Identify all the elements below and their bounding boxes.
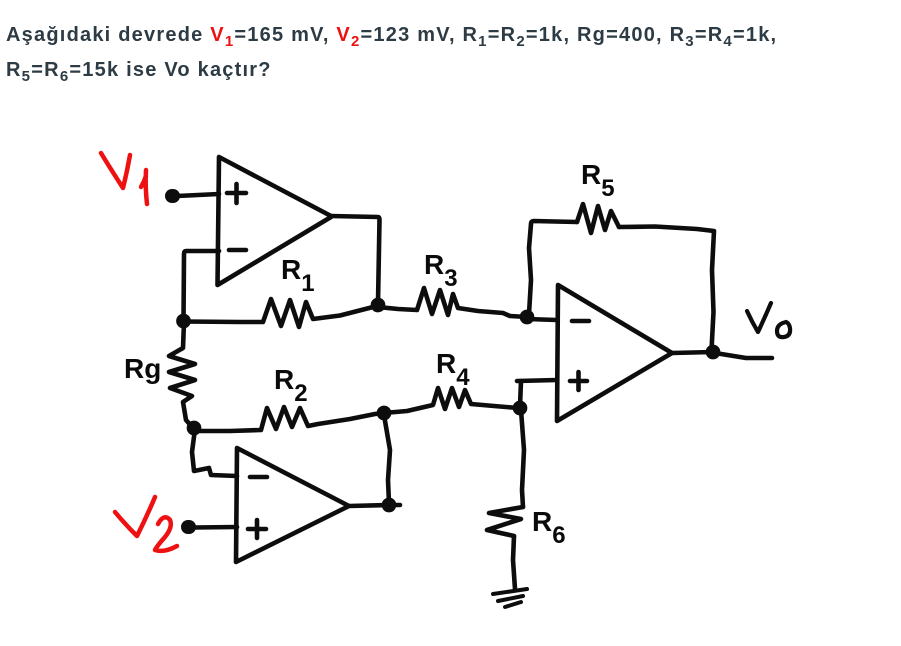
node E [513, 401, 526, 414]
ground [493, 589, 527, 594]
wire node C to U3 - input [527, 319, 557, 320]
node F [377, 406, 390, 419]
wire Vo output [715, 353, 772, 358]
op-amp U1 [218, 157, 332, 285]
resistor R4 [384, 388, 520, 413]
resistor R5 [577, 204, 619, 233]
op-amp U3 [557, 285, 672, 421]
wire U2 output to node F2 [349, 505, 400, 506]
node G [187, 421, 200, 434]
resistor R2 [196, 407, 384, 431]
label V1 (red handwritten) [101, 153, 147, 204]
U3 minus input symbol [572, 319, 589, 324]
wire V1 dot to U1 + input [177, 194, 219, 196]
resistor R3 [378, 288, 527, 317]
node C [520, 310, 533, 323]
wire U1 output to node B [331, 216, 380, 303]
U2 plus input symbol [248, 520, 266, 538]
svg-text:R5: R5 [581, 159, 615, 202]
svg-text:Rg: Rg [124, 353, 161, 384]
wire node G to U2 - input [192, 429, 237, 476]
node A [177, 314, 190, 327]
resistor R1 [184, 299, 377, 327]
svg-text:R1: R1 [281, 254, 315, 297]
U2 minus input symbol [250, 475, 267, 480]
node V2 input dot [188, 520, 189, 534]
wire node F down to U2 output node [384, 415, 390, 503]
wire R5 down to node D [619, 227, 714, 351]
wire U3 + input and stub to node E [517, 380, 557, 406]
svg-text:R2: R2 [274, 364, 308, 407]
wire U3 output to node D [672, 352, 713, 353]
label Vo (black handwritten) [747, 303, 790, 337]
U1 minus input symbol [229, 248, 246, 253]
wire V2 dot to U2 + input [194, 525, 237, 530]
wire U1 - input to node A [184, 251, 220, 321]
label V2 (red handwritten) [115, 497, 177, 551]
svg-text:R4: R4 [436, 348, 470, 391]
U1 plus input symbol [227, 184, 246, 203]
node D [706, 345, 719, 358]
wire node C up to R5 [529, 221, 577, 314]
svg-text:R3: R3 [424, 249, 458, 292]
op-amp U2 [236, 448, 349, 562]
node V1 input dot [172, 189, 173, 203]
node B [371, 298, 384, 311]
wire node E down to R6 [521, 410, 524, 507]
svg-text:R6: R6 [532, 506, 566, 549]
node F2 [382, 498, 395, 511]
wire R6 to ground [513, 536, 515, 589]
resistor Rg [169, 322, 195, 428]
resistor R6 [487, 507, 523, 536]
U3 plus input symbol [570, 372, 587, 390]
